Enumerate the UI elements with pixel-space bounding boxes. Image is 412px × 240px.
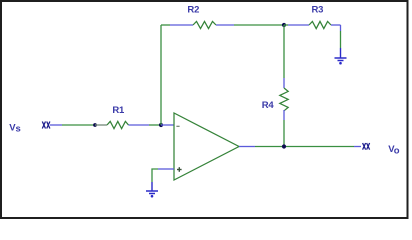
label Vo <box>388 144 399 157</box>
resistor R4 <box>280 78 288 120</box>
wire: non-inverting input to ground corner (158,169)-(152,169)-(152,182) <box>152 169 158 182</box>
wire: top net segment R2 to junction (234,25)-(284,25) <box>234 24 284 26</box>
resistor R2 <box>170 21 234 28</box>
wire: junction to R3 (284,25)-(288,25) <box>284 24 288 26</box>
svg-text:Vo: Vo <box>388 144 399 157</box>
resistor R3 <box>288 21 341 28</box>
wire: input net (62,125)-(95,125) <box>62 124 95 126</box>
wire: R3 down to ground (340.5,25)-(340.5,57) <box>340 25 342 58</box>
svg-text:R3: R3 <box>312 5 324 16</box>
wire: R4 down to output node (284,120)-(284,146.5) <box>283 120 285 147</box>
junction dot at node (95,125) <box>93 123 97 127</box>
svg-text:R4: R4 <box>262 100 275 111</box>
ground (right, under R3) <box>335 58 347 65</box>
port Vs (interface port, double-x) <box>42 122 50 129</box>
wire: top feedback net, left segment (161,25)-(170,25) <box>161 24 170 26</box>
junction dot at node (284,25) <box>282 23 286 27</box>
wire: non-inverting input pin (174,169)-(158,169) <box>158 168 174 170</box>
label R2 <box>187 5 199 16</box>
svg-text:R1: R1 <box>112 105 125 116</box>
junction dot at output node (284,146.5) <box>282 144 286 148</box>
wire: op-amp output pin (239,146.5)-(255,146.5) <box>239 146 255 148</box>
wire: ground pin (152,182)-(152,190.5) <box>151 182 153 191</box>
wire: output net (255,146.5)-(354,146.5) <box>255 146 354 148</box>
op-amp U1 <box>174 113 239 180</box>
label R1 <box>112 105 125 116</box>
ground (left, at non-inverting input) <box>146 191 158 198</box>
wire: vertical feedback branch (284,25)-(284,78) <box>283 25 285 78</box>
label R4 <box>262 100 275 111</box>
wire: output port pin (354,146.5)-(361,146.5) <box>354 146 361 148</box>
wire: R1 to inverting node (149,125)-(161,125) <box>149 124 161 126</box>
port Vo (interface port, double-x) <box>363 143 370 150</box>
wire: inverting node up to feedback net (161,25)-(161,125) <box>160 25 162 125</box>
label Vs <box>9 122 20 134</box>
label R3 <box>312 5 324 16</box>
wire: port pin (50,125)-(62,125) <box>50 124 62 126</box>
junction dot at inverting input node (161,125) <box>159 123 163 127</box>
wire: pin to op-amp inverting input (161,125)-(174,125) <box>161 124 174 126</box>
svg-text:Vs: Vs <box>9 122 20 134</box>
resistor R1 <box>95 121 149 128</box>
svg-text:R2: R2 <box>187 5 199 16</box>
